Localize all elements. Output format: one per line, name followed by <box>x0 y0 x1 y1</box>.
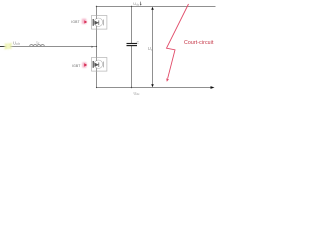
svg-text:IGBT: IGBT <box>72 64 80 68</box>
svg-text:Uch: Uch <box>13 40 20 46</box>
svg-text:Court-circuit: Court-circuit <box>184 40 214 46</box>
svg-text:Udc: Udc <box>133 1 139 7</box>
svg-text:Udc: Udc <box>134 90 140 96</box>
svg-text:Uc: Uc <box>148 46 153 52</box>
svg-text:IGBT: IGBT <box>71 20 79 24</box>
